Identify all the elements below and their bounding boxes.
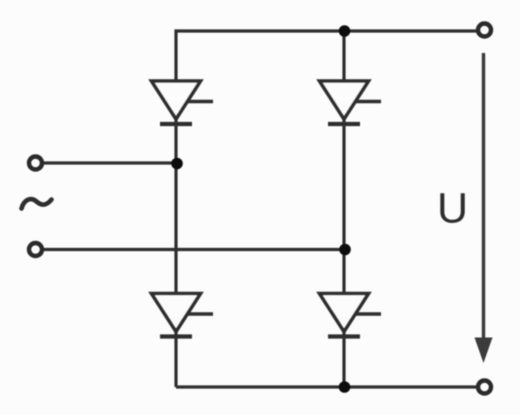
svg-text:U: U	[437, 185, 468, 233]
